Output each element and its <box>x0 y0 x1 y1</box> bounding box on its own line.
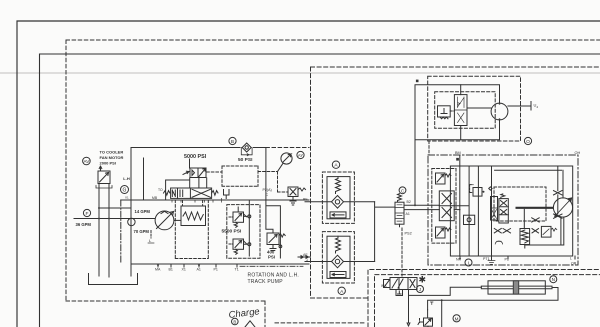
junction dots F wire <box>98 218 110 220</box>
cooler lines down <box>99 184 109 278</box>
svg-text:PSI: PSI <box>268 255 275 260</box>
svg-text:C: C <box>266 193 269 197</box>
BM comp circle box <box>464 215 475 224</box>
BM relief upper <box>436 173 451 184</box>
AT regulator spring <box>398 194 402 202</box>
svg-text:B: B <box>233 320 236 325</box>
port arrows <box>157 265 200 267</box>
filter A upper dashed box <box>322 172 354 223</box>
pump drain L <box>148 231 154 244</box>
solenoid valve J <box>390 278 417 290</box>
M valve feed tick <box>431 302 434 305</box>
svg-text:P2(A): P2(A) <box>263 188 272 192</box>
filter A lower body <box>327 236 350 278</box>
svg-text:B2: B2 <box>407 200 411 204</box>
relief 400psi valve <box>267 233 285 251</box>
svg-text:A1: A1 <box>197 268 201 272</box>
svg-text:L: L <box>149 238 152 243</box>
filter output riser <box>375 202 395 262</box>
BM direction valve <box>439 191 454 221</box>
charge pump circle <box>128 218 135 225</box>
svg-text:NR: NR <box>456 258 462 262</box>
fan pilot link dashed <box>450 110 454 112</box>
junction dot feed <box>414 204 416 206</box>
wire col inner <box>143 158 145 200</box>
AT regulator valve <box>395 202 404 224</box>
swash control valve row <box>164 188 219 198</box>
svg-text:MB: MB <box>152 196 158 200</box>
circle N <box>550 276 557 283</box>
wire G to box <box>99 207 131 209</box>
bottom port ticks <box>158 264 237 267</box>
pump group box <box>131 148 309 265</box>
svg-text:L.H: L.H <box>123 176 130 181</box>
svg-text:B1: B1 <box>169 268 173 272</box>
svg-text:A1: A1 <box>406 212 410 216</box>
BM bowtie X2 <box>532 218 540 222</box>
BM relief lower <box>436 227 451 238</box>
case drain dash-dot <box>120 200 122 264</box>
relief 5500 feed wire <box>248 200 250 256</box>
400psi port dot <box>279 245 282 248</box>
svg-text:OH: OH <box>575 151 581 155</box>
BM left dashed sub-box <box>432 169 456 244</box>
BM diamond junction <box>489 187 492 190</box>
svg-text:2000 PSI: 2000 PSI <box>100 161 116 166</box>
svg-text:✱: ✱ <box>419 275 427 285</box>
svg-text:5000 PSI: 5000 PSI <box>184 154 207 160</box>
svg-text:36 GPM: 36 GPM <box>76 222 92 227</box>
BM bold line <box>517 207 553 209</box>
dashed segment bottom charge line <box>275 322 364 324</box>
BM small box <box>541 226 556 237</box>
valve M <box>418 318 433 327</box>
filter A lower circle <box>338 287 345 295</box>
scan artifact gray line <box>0 72 600 74</box>
O box feed wire <box>414 140 416 206</box>
border dashed (machine boundary) <box>66 40 600 327</box>
BM tall valve left <box>491 197 498 221</box>
circle I <box>465 259 472 266</box>
filter A upper body <box>327 177 350 219</box>
BM top junction square <box>456 158 459 161</box>
circle M <box>453 315 460 322</box>
BM accumulator <box>520 229 530 245</box>
svg-text:5500 PSI: 5500 PSI <box>222 229 242 235</box>
case drain exit corner <box>121 199 131 201</box>
gauge <box>278 153 293 172</box>
O box dashed outer <box>428 76 521 141</box>
svg-text:MA: MA <box>155 268 161 272</box>
J tank drain line <box>407 290 410 327</box>
BM dash-dot box <box>428 155 578 265</box>
svg-text:T1: T1 <box>235 268 239 272</box>
svg-text:C: C <box>401 188 405 193</box>
cylinder return wire <box>428 288 558 310</box>
relief 5500 upper valve <box>229 207 248 227</box>
svg-text:AY: AY <box>298 153 303 158</box>
circle F <box>83 209 90 217</box>
svg-text:P1: P1 <box>505 258 509 262</box>
filter A lower spring <box>336 236 341 253</box>
return junction dot <box>441 299 443 301</box>
BM bowtie X1 <box>503 229 511 233</box>
filter A lower orifice box <box>330 272 346 278</box>
svg-text:OR: OR <box>571 262 577 266</box>
junction dots G wire <box>98 207 100 209</box>
row tank bracket <box>224 190 230 199</box>
svg-text:BM: BM <box>455 151 461 155</box>
filter A upper spring <box>336 177 341 194</box>
BM check valves <box>495 241 502 244</box>
BM accumulator feed <box>523 209 526 248</box>
cylinder N body <box>488 281 545 294</box>
charge pump triangle <box>245 321 255 327</box>
J to cylinder wire <box>409 287 482 295</box>
AF BF exit wires <box>298 256 311 259</box>
BM motor top wire <box>558 166 563 214</box>
svg-text:J: J <box>419 287 421 292</box>
filter 50psi diamond <box>241 143 252 156</box>
BM motor bottom wire <box>525 217 564 245</box>
inner dashed enclosure offset <box>375 275 600 327</box>
svg-text:PT1: PT1 <box>483 257 490 261</box>
svg-text:2: 2 <box>537 105 539 109</box>
50psi output line <box>265 148 267 201</box>
O box dashed inner <box>435 92 496 129</box>
svg-text:50 PSI: 50 PSI <box>238 157 253 163</box>
5000 valve pilot dashes <box>207 166 258 186</box>
filter A upper orifice box <box>330 212 346 218</box>
circle J <box>417 286 424 293</box>
5000 valve feed wires <box>166 159 207 200</box>
svg-text:FAN MOTOR: FAN MOTOR <box>100 155 124 160</box>
svg-text:I: I <box>468 261 469 266</box>
fan valve to motor wire <box>461 85 491 140</box>
filter A upper circle <box>332 161 339 169</box>
main pump circle <box>155 211 174 230</box>
BM motor circle <box>553 198 572 217</box>
svg-text:X1: X1 <box>182 268 186 272</box>
servo piston box <box>174 206 206 226</box>
relief 5500 upper port dot <box>248 215 251 218</box>
svg-text:G: G <box>123 188 127 194</box>
circle AV <box>83 157 91 165</box>
circle B bottom <box>232 318 239 325</box>
circle C <box>399 187 406 194</box>
aux valve B group <box>288 187 306 205</box>
svg-text:N: N <box>552 277 555 282</box>
loop junction square <box>416 80 419 83</box>
filter A upper diamond <box>332 196 344 209</box>
BM bowtie X1b <box>494 229 501 233</box>
pressure cutoff valve 5000psi <box>183 168 206 178</box>
big dashed enclosure right <box>311 67 600 327</box>
svg-text:O: O <box>526 139 530 145</box>
wire F to charge pump <box>74 218 155 220</box>
BM motor bowtie below <box>554 214 563 218</box>
svg-text:M: M <box>455 316 459 321</box>
svg-text:TRACK PUMP: TRACK PUMP <box>248 279 284 285</box>
M valve feed <box>427 310 429 318</box>
return branch wire <box>441 300 443 327</box>
cooler relief valve <box>98 166 110 184</box>
bottom dashdot segment <box>240 265 303 267</box>
border inner solid <box>40 54 600 327</box>
BM inner top line <box>495 169 562 171</box>
J drain box <box>396 290 403 296</box>
svg-text:AF: AF <box>303 253 308 257</box>
O box to BM pilot dashed <box>428 141 430 155</box>
filter A upper line <box>305 201 375 203</box>
manifold micro ticks <box>172 198 222 202</box>
circle AY <box>297 151 304 158</box>
gauge pilot dashed <box>258 172 288 193</box>
fan pilot box <box>438 106 451 119</box>
svg-text:L: L <box>570 257 572 261</box>
svg-text:70 GPM: 70 GPM <box>134 229 150 234</box>
BM inner solid box <box>450 166 572 256</box>
cylinder piston <box>513 281 518 294</box>
svg-text:P1: P1 <box>214 268 218 272</box>
svg-text:ROTATION AND L.H.: ROTATION AND L.H. <box>248 273 300 279</box>
BM bottom ticks <box>460 256 575 260</box>
PT1 tank glyph <box>488 261 495 265</box>
relief 5500 dashed box <box>227 205 260 259</box>
svg-text:AV: AV <box>84 159 91 164</box>
svg-text:F: F <box>86 211 89 217</box>
U2 stub wire <box>508 102 531 111</box>
BM internal wire columns <box>454 155 491 256</box>
servo pilot dashed lines <box>175 200 208 259</box>
svg-text:B: B <box>231 139 234 145</box>
svg-text:TO COOLER: TO COOLER <box>100 150 124 155</box>
AT valve output wires <box>404 205 439 209</box>
circle G <box>121 186 129 194</box>
fan motor circle <box>491 103 508 120</box>
circle O <box>524 137 531 145</box>
svg-text:X1: X1 <box>125 195 129 199</box>
BM dashed subbox right <box>494 187 546 221</box>
PS2 pilot dashed <box>400 224 403 276</box>
filter A lower diamond <box>332 255 344 268</box>
svg-text:WA: WA <box>381 284 387 288</box>
relief 5500 lower port dot <box>248 243 251 246</box>
pump group box top-right dashed <box>266 147 309 149</box>
svg-text:BF: BF <box>303 197 308 201</box>
cooler valve bracket <box>96 186 112 189</box>
filter A lower dashed box <box>322 232 354 283</box>
filter A lower line <box>305 261 375 263</box>
circle B top <box>229 137 236 145</box>
T1 return line <box>130 264 132 276</box>
fan motor loop wire <box>415 85 500 140</box>
cylinder rod <box>481 286 552 289</box>
BM pressure switch <box>470 185 485 197</box>
fan valve <box>454 95 467 126</box>
J solenoid box <box>384 280 391 288</box>
BM sequence valve <box>499 194 508 223</box>
svg-text:TO: TO <box>158 188 163 192</box>
BM motor bowtie above <box>554 191 563 195</box>
manifold line <box>131 199 309 201</box>
relief 5500 lower valve <box>229 239 248 254</box>
tank bracket left <box>89 274 138 285</box>
svg-text:14 GPM: 14 GPM <box>135 209 151 214</box>
400psi feed wires <box>266 200 281 258</box>
svg-text:PS2: PS2 <box>405 232 412 236</box>
BM bowtie X3 <box>532 229 539 233</box>
